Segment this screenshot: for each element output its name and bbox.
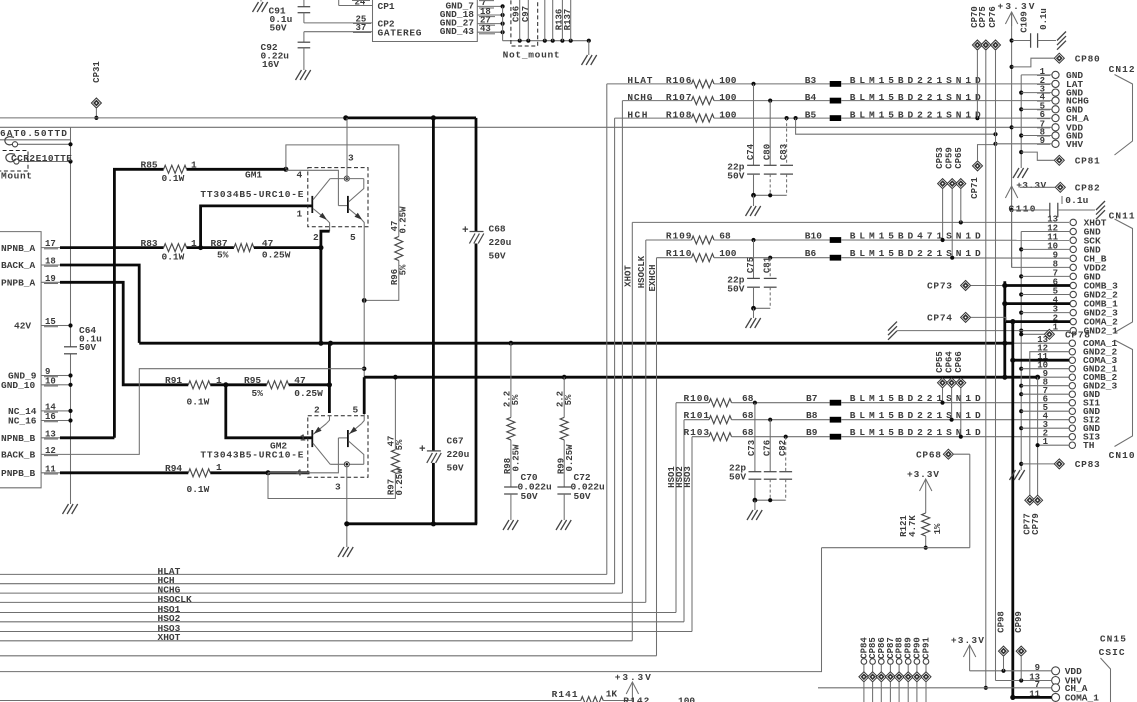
CN12 pin 6 CH_A xyxy=(1052,115,1059,122)
svg-text:2: 2 xyxy=(314,405,320,416)
CN10 pin 3 GND xyxy=(1069,425,1075,431)
CN11 pin 5 GND2_2 xyxy=(1070,291,1076,297)
wire GND stubs CN10 xyxy=(1019,392,1023,396)
CN11 pin 6 COMB_3 xyxy=(1070,282,1076,288)
capacitor C68 220u 50V electrolytic xyxy=(475,118,478,231)
wire R101 vertical from bus xyxy=(683,420,685,622)
IC U? top (partial) box xyxy=(373,0,478,42)
ferrite bead B3 BLM15BD221SN1D xyxy=(714,83,830,85)
svg-text:CP68: CP68 xyxy=(916,450,941,461)
svg-text:50V: 50V xyxy=(79,342,96,353)
wire NCHG vertical from bus xyxy=(621,101,623,593)
testpoint CP98 xyxy=(999,646,1009,656)
CN11 pin 1 GND2_1 xyxy=(1070,327,1076,333)
svg-text:CP71: CP71 xyxy=(970,177,980,199)
capacitor C74 22p 50V xyxy=(753,84,755,165)
svg-text:CN11: CN11 xyxy=(1109,211,1135,222)
wire VHV row xyxy=(996,680,1052,682)
IC pin 25 CP2 wire xyxy=(304,22,373,24)
IC pin 24 CP1 wire xyxy=(339,5,373,7)
GM1 pin3 wire and node xyxy=(346,118,348,176)
svg-text:CP99: CP99 xyxy=(1014,611,1024,633)
ground C110 rotated xyxy=(1096,201,1105,210)
node CP70 tap CH_A xyxy=(975,116,979,120)
svg-text:1: 1 xyxy=(216,462,222,473)
svg-text:R94: R94 xyxy=(165,463,182,474)
wire GND2_1 to ground xyxy=(897,330,1070,332)
GM2 pin3 node and wire to ground xyxy=(344,462,349,467)
svg-text:R83: R83 xyxy=(141,238,158,249)
wire NPNB_B vertical to R85 xyxy=(60,436,114,439)
CN10 pin 13 COMA_1 xyxy=(1069,340,1075,346)
pin NC_14 wire xyxy=(60,410,71,412)
CN11 pin 7 GND xyxy=(1070,273,1076,279)
IC pin 37 GATEREG wire xyxy=(304,31,373,33)
svg-text:B6: B6 xyxy=(805,248,817,259)
CN11 pin 3 GND2_3 xyxy=(1070,309,1076,315)
svg-text:TT3043B5-URC10-E: TT3043B5-URC10-E xyxy=(200,449,303,460)
wire COMA_1 row bold xyxy=(1013,696,1052,699)
svg-text:C81: C81 xyxy=(763,256,773,273)
node C73 tap xyxy=(753,401,757,405)
ferrite bead B9 BLM15BD221SN1D xyxy=(732,436,830,438)
resistor R107 100 xyxy=(622,100,691,102)
wire to R97 bottom xyxy=(268,473,395,499)
svg-text:B9: B9 xyxy=(806,427,818,438)
CN15 pin 13 VHV xyxy=(1052,677,1060,685)
wire R83-R87 xyxy=(187,246,234,249)
svg-text:1: 1 xyxy=(300,433,306,444)
svg-text:50V: 50V xyxy=(729,472,746,483)
svg-text:HCH: HCH xyxy=(627,109,647,120)
svg-text:C76: C76 xyxy=(763,440,773,456)
transistor array GM1 TT3034B5-URC10-E dashed box xyxy=(308,168,368,227)
svg-text:0.1W: 0.1W xyxy=(187,484,210,495)
testpoint CP80 xyxy=(1054,53,1064,63)
capacitor C72 0.022u 50V xyxy=(563,440,565,487)
wire R96 bottom to pin5 line xyxy=(364,261,399,301)
GM2 internal transistors xyxy=(330,463,364,465)
CN10 pin 7 GND xyxy=(1069,391,1075,397)
resistor R100 68 xyxy=(676,402,709,404)
svg-text:0.25W: 0.25W xyxy=(399,206,409,234)
testpoint CP77 xyxy=(1025,495,1035,505)
svg-text:1%: 1% xyxy=(933,523,943,534)
label box 6AT0.50TTD bottom edge xyxy=(0,139,71,141)
svg-text:NC_16: NC_16 xyxy=(8,416,37,427)
svg-text:B4: B4 xyxy=(805,92,817,103)
svg-text:BLM15BD221SN1D: BLM15BD221SN1D xyxy=(850,92,981,103)
wire PNPB_B to R94 xyxy=(60,471,188,474)
ground GND2_1 rotated xyxy=(888,322,897,331)
wire GM1 pin1 from R83 node xyxy=(201,206,312,248)
capacitor C75 22p 50V xyxy=(753,240,755,278)
node C81 tap xyxy=(768,256,772,260)
svg-text:R109: R109 xyxy=(666,230,692,241)
svg-text:GATEREG: GATEREG xyxy=(378,28,422,39)
svg-text:BLM15BD221SN1D: BLM15BD221SN1D xyxy=(850,109,981,120)
wire COMB_2 bold line y=377 xyxy=(364,376,1037,379)
wire +3.3V to VDD row xyxy=(969,659,971,671)
svg-text:1: 1 xyxy=(297,208,303,219)
svg-text:CP80: CP80 xyxy=(1075,54,1100,65)
CN10 pin 1 TH xyxy=(1069,442,1075,448)
capacitor C83 (not mount) xyxy=(786,118,788,165)
wire VDD stub xyxy=(1012,126,1052,128)
svg-text:CP73: CP73 xyxy=(927,281,952,292)
svg-text:C82: C82 xyxy=(778,440,788,456)
svg-text:B5: B5 xyxy=(805,109,817,120)
svg-text:50V: 50V xyxy=(270,23,287,34)
svg-text:0.25W: 0.25W xyxy=(262,250,291,261)
svg-text:R141: R141 xyxy=(552,689,578,700)
wire top rail bold y=118 xyxy=(346,117,476,120)
wire C98/C99 leads xyxy=(544,0,546,41)
wire R100 vertical from bus xyxy=(675,403,677,613)
svg-text:CP1: CP1 xyxy=(378,1,395,12)
node C80 tap xyxy=(768,99,772,103)
svg-text:R95: R95 xyxy=(244,375,261,386)
wire BACK_B up to pin5 line xyxy=(60,369,365,455)
testpoint CP55 on SI1 xyxy=(938,378,948,388)
svg-text:CP53: CP53 xyxy=(935,147,945,169)
svg-text:50V: 50V xyxy=(447,463,464,474)
testpoint CP65 xyxy=(956,179,966,189)
svg-text:42V: 42V xyxy=(14,321,31,332)
node C74 tap xyxy=(751,82,755,86)
testpoint CP71 xyxy=(973,161,983,171)
svg-text:TT3034B5-URC10-E: TT3034B5-URC10-E xyxy=(200,189,303,200)
testpoint CP70 xyxy=(972,40,982,50)
svg-text:3: 3 xyxy=(335,482,341,493)
svg-text:4.7K: 4.7K xyxy=(908,515,918,537)
svg-text:R101: R101 xyxy=(684,410,710,421)
svg-text:HSO3: HSO3 xyxy=(683,466,693,488)
svg-text:+3.3V: +3.3V xyxy=(998,1,1035,12)
svg-text:C96: C96 xyxy=(512,6,522,22)
wire C74/C80/C83 junction xyxy=(754,194,787,196)
svg-text:R110: R110 xyxy=(666,248,692,259)
wire BACK_A down xyxy=(60,265,139,343)
ground CN12 xyxy=(1013,168,1019,178)
ground C73 xyxy=(754,500,756,510)
ground left rail xyxy=(63,504,69,514)
wire CN11 GND rail xyxy=(1020,232,1022,471)
svg-text:3: 3 xyxy=(348,153,354,164)
fuse F1 CCR2E10TTE xyxy=(5,137,14,145)
wire R103 vertical from bus xyxy=(691,437,693,632)
svg-text:C109: C109 xyxy=(1019,11,1029,33)
svg-text:CP83: CP83 xyxy=(1075,459,1100,470)
wire R95 out to GM2 pin2 node xyxy=(289,383,330,386)
ferrite bead B4 BLM15BD221SN1D xyxy=(714,100,830,102)
svg-text:4: 4 xyxy=(297,170,303,181)
capacitor C76 22p xyxy=(769,420,771,472)
svg-text:C83: C83 xyxy=(779,144,789,160)
wire VHV bold xyxy=(996,143,1052,145)
wire R97 top to COMB_2 line xyxy=(394,426,396,450)
svg-text:5%: 5% xyxy=(564,394,574,405)
wire GND2_1 stub xyxy=(1019,367,1023,371)
wire HLAT vertical from bus xyxy=(606,84,608,575)
wire C75/C81 junction xyxy=(754,307,771,309)
GM1 internal transistors xyxy=(330,178,364,180)
svg-text:NPNB_B: NPNB_B xyxy=(1,433,36,444)
IC pin 18 stub xyxy=(477,14,502,16)
CN11 pin 4 COMB_1 xyxy=(1070,300,1076,306)
CN12 pin 9 VHV xyxy=(1052,140,1059,147)
wire EXHCH vertical from bus xyxy=(656,258,658,656)
svg-text:0.25W: 0.25W xyxy=(395,468,405,496)
svg-text:CP74: CP74 xyxy=(927,313,952,324)
svg-text:100: 100 xyxy=(678,696,695,702)
svg-text:C110: C110 xyxy=(1009,204,1036,215)
svg-text:NCHG: NCHG xyxy=(627,92,652,103)
resistor R99 2.2 5% 0.25W xyxy=(563,377,565,417)
wire GM2 pin1 from R91 node xyxy=(226,385,312,438)
svg-text:+: + xyxy=(462,225,469,237)
svg-text:CP76: CP76 xyxy=(988,6,998,28)
ground C75 xyxy=(753,308,755,318)
CN10 pin 12 GND2_2 xyxy=(1069,349,1075,355)
wire HCH vertical from bus xyxy=(614,118,616,584)
wire COMB_3 stub bold xyxy=(1005,284,1070,287)
svg-text:R107: R107 xyxy=(666,92,692,103)
pin GND_9 wire xyxy=(60,375,71,377)
wire VDD long line y=127.3 xyxy=(0,126,1012,128)
wire bus SCK to R121 xyxy=(0,548,822,672)
svg-text:1K: 1K xyxy=(606,689,618,700)
testpoint CP83 xyxy=(1054,459,1064,469)
svg-text:+3.3V: +3.3V xyxy=(951,635,984,646)
svg-text:50V: 50V xyxy=(727,171,744,182)
wire bus HSO1 xyxy=(0,612,676,614)
capacitor C80 22p (not mount) xyxy=(769,101,771,166)
wire C73/C76/C82 junction xyxy=(755,499,786,501)
svg-text:COMA_1: COMA_1 xyxy=(1065,692,1100,702)
svg-text:0.25W: 0.25W xyxy=(294,388,323,399)
wire top rail thin y=118 xyxy=(0,117,346,119)
testpoint CP68 xyxy=(943,449,953,459)
testpoint CP76 vertical to CSIC VHV xyxy=(991,40,1001,50)
svg-text:B3: B3 xyxy=(805,75,817,86)
wire to R96 top xyxy=(286,145,399,237)
svg-text:C74: C74 xyxy=(746,143,756,160)
wire 42V left vertical rail xyxy=(70,127,72,346)
svg-text:CP66: CP66 xyxy=(954,351,964,373)
wire R91-R95 node xyxy=(210,383,266,386)
resistor R121 4.7K 1% xyxy=(925,493,927,513)
svg-text:5: 5 xyxy=(353,405,359,416)
svg-text:0.1u: 0.1u xyxy=(1039,8,1049,30)
CN12 pin 3 GND xyxy=(1052,89,1059,96)
wire gnd collector vertical xyxy=(502,6,504,40)
wire bus XHOT xyxy=(0,640,632,642)
resistor R106 100 xyxy=(607,83,692,85)
wire HSOCLK vertical from bus xyxy=(645,240,647,602)
testpoint CP73 xyxy=(961,281,971,291)
svg-text:B7: B7 xyxy=(806,393,818,404)
svg-text:R103: R103 xyxy=(684,427,710,438)
svg-text:CP98: CP98 xyxy=(996,611,1006,633)
node C75 tap xyxy=(751,238,755,242)
CN12 pin 2 LAT xyxy=(1052,80,1059,87)
svg-text:5%: 5% xyxy=(511,394,521,405)
capacitor C97 (not mount) lead xyxy=(527,0,529,41)
svg-text:R137: R137 xyxy=(563,9,573,31)
wire XHOT vertical from bus xyxy=(631,222,633,640)
capacitor C67 220u 50V electrolytic xyxy=(432,118,435,451)
wire bus HSO2 xyxy=(0,621,684,623)
svg-text:0.1W: 0.1W xyxy=(162,252,185,263)
svg-text:CN12: CN12 xyxy=(1109,64,1135,75)
wire +3.3V rail xyxy=(1011,12,1013,267)
svg-text:Not_mount: Not_mount xyxy=(503,50,560,61)
transistor array GM2 TT3043B5-URC10-E dashed box xyxy=(308,416,368,478)
svg-text:CN10: CN10 xyxy=(1109,450,1135,461)
testpoint CP64 on SI2 xyxy=(947,378,957,388)
svg-text:GND_10: GND_10 xyxy=(1,380,36,391)
svg-text:50V: 50V xyxy=(521,491,538,502)
resistor R136 lead xyxy=(561,0,563,41)
wire R121 bottom to CP68 line xyxy=(822,547,970,549)
svg-text:C73: C73 xyxy=(747,440,757,456)
wire bus HCH xyxy=(0,583,615,585)
resistor R108 100 xyxy=(615,117,692,119)
testpoint CP82 xyxy=(1055,182,1065,192)
svg-text:EXHCH: EXHCH xyxy=(648,264,658,291)
svg-text:C68: C68 xyxy=(489,224,506,235)
wire bold ground bus y=524 xyxy=(346,522,477,525)
svg-text:R91: R91 xyxy=(165,375,182,386)
resistor R101 68 xyxy=(684,419,709,421)
CN12 pin 8 GND xyxy=(1052,132,1059,139)
CN15 pin 11 COMA_1 xyxy=(1052,693,1060,701)
ground C72 xyxy=(556,520,562,530)
svg-text:0.25W: 0.25W xyxy=(512,444,522,472)
wire VDD2 corner xyxy=(1011,263,1013,267)
IC pin 43 stub xyxy=(477,31,502,33)
CN11 pin 11 SCK xyxy=(1070,237,1076,243)
wire COMB_1 stub bold xyxy=(1005,302,1070,305)
svg-text:NPNB_A: NPNB_A xyxy=(1,243,36,254)
resistor R110 100 xyxy=(657,257,692,259)
wire COMA_1 bold line y=343 xyxy=(139,342,1013,345)
ground C70 xyxy=(503,520,509,530)
svg-text:+: + xyxy=(419,444,426,456)
wire bus HSOCLK xyxy=(0,601,646,603)
not-mount dashed box xyxy=(511,0,538,46)
wire bus EXHCH xyxy=(0,655,657,657)
CN10 pin 6 SI1 xyxy=(1069,400,1075,406)
svg-text:Mount: Mount xyxy=(1,171,32,182)
resistor R103 68 xyxy=(692,436,709,438)
capacitor C82 (not mount) xyxy=(785,437,787,472)
svg-text:C97: C97 xyxy=(521,6,531,22)
svg-text:+3.3V: +3.3V xyxy=(615,672,651,683)
svg-text:0.1W: 0.1W xyxy=(162,173,185,184)
svg-text:0.1W: 0.1W xyxy=(187,397,210,408)
svg-text:43: 43 xyxy=(480,24,491,34)
ground of gnd rail xyxy=(588,41,590,55)
testpoint CP75 vertical to CSIC CH_A xyxy=(981,40,991,50)
svg-text:C75: C75 xyxy=(746,257,756,273)
CN10 pin 10 GND2_1 xyxy=(1069,366,1075,372)
testpoint CP79 xyxy=(1033,495,1043,505)
svg-text:50V: 50V xyxy=(574,491,591,502)
wire GM1 pin2 down xyxy=(321,231,330,343)
testpoint CP66 on SI3 xyxy=(956,378,966,388)
pin NC_16 wire xyxy=(60,420,71,422)
svg-text:5: 5 xyxy=(350,232,356,243)
svg-text:CSIC: CSIC xyxy=(1099,647,1125,658)
node GND pins junctions xyxy=(501,4,505,8)
testpoint CP59 xyxy=(947,179,957,189)
CN12 pin 7 VDD xyxy=(1052,124,1059,131)
svg-text:R85: R85 xyxy=(141,160,158,171)
svg-text:C80: C80 xyxy=(763,144,773,160)
svg-text:100: 100 xyxy=(719,109,736,120)
CN12 pin 1 GND xyxy=(1052,71,1059,78)
svg-text:R106: R106 xyxy=(666,75,692,86)
wire GM2 pin2 vertical xyxy=(328,343,331,413)
svg-text:GM1: GM1 xyxy=(245,170,262,181)
resistor R97 47 0.25W 5% xyxy=(391,450,399,473)
svg-text:B8: B8 xyxy=(806,410,818,421)
svg-text:2: 2 xyxy=(313,232,319,243)
ferrite bead B10 BLM15BD471SN1D xyxy=(714,239,830,241)
wire NPNB_A to R83 xyxy=(60,246,164,249)
resistor R109 68 xyxy=(646,239,692,241)
wire CP68 vertical xyxy=(969,454,971,548)
svg-text:5%: 5% xyxy=(252,388,264,399)
svg-text:37: 37 xyxy=(356,23,367,33)
ground CN10 rail xyxy=(1010,470,1016,480)
capacitor C96 (not mount) lead xyxy=(519,0,521,41)
svg-text:XHOT: XHOT xyxy=(624,265,634,287)
svg-text:CP81: CP81 xyxy=(1075,156,1100,167)
wire COMA_2 stub bold xyxy=(1006,320,1070,323)
ground near C91 xyxy=(253,2,259,12)
CN10 pin 2 SI3 xyxy=(1069,434,1075,440)
IC pin 27 stub xyxy=(477,23,502,25)
testpoint CP74 xyxy=(961,312,971,322)
wire B5 jog to VHV vertical xyxy=(796,118,996,134)
resistor R137 lead xyxy=(570,0,572,41)
svg-text:CP31: CP31 xyxy=(92,61,102,83)
testpoint CP53 xyxy=(938,179,948,189)
testpoint CP81 xyxy=(1054,155,1064,165)
CN10 pin 4 SI2 xyxy=(1069,417,1075,423)
svg-text:+3.3V: +3.3V xyxy=(907,469,939,480)
CN11 pin 13 XHOT xyxy=(1070,219,1076,225)
node C76 tap xyxy=(768,418,772,422)
wire TH to CP79 xyxy=(1037,377,1039,495)
ground C74 xyxy=(753,195,755,206)
wire GND2_3 stub xyxy=(1019,384,1023,388)
ferrite bead B7 BLM15BD221SN1D xyxy=(732,402,830,404)
svg-text:CP75: CP75 xyxy=(978,6,988,28)
wire gnd rail horizontal xyxy=(503,40,589,42)
svg-text:HLAT: HLAT xyxy=(627,75,652,86)
svg-text:5%: 5% xyxy=(399,264,409,275)
CN12 pin 5 GND xyxy=(1052,106,1059,113)
wire R87 out to GM1 pin2 node xyxy=(254,246,321,249)
ground C109 rotated xyxy=(1057,32,1066,41)
svg-text:50V: 50V xyxy=(727,284,744,295)
wire R141 left xyxy=(0,700,540,702)
ground below C92 xyxy=(296,70,302,80)
